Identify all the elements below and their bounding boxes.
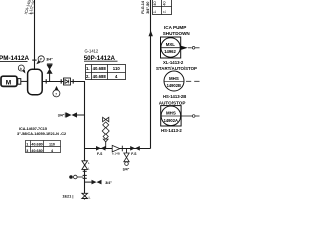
- svg-text:14902B: 14902B: [167, 83, 181, 88]
- svg-text:40: 40: [152, 1, 157, 6]
- svg-text:SHUTDOWN: SHUTDOWN: [163, 31, 191, 36]
- svg-text:1.: 1.: [152, 10, 157, 13]
- svg-text:b.14B: b.14B: [112, 152, 120, 156]
- svg-text:MXL: MXL: [166, 42, 176, 47]
- svg-text:HS-1413-2: HS-1413-2: [161, 128, 182, 133]
- svg-text:110: 110: [113, 66, 121, 71]
- svg-text:14962: 14962: [164, 49, 176, 54]
- svg-text:3/4": 3/4": [105, 181, 112, 185]
- svg-text:40.680: 40.680: [31, 149, 42, 153]
- svg-text:2.: 2.: [162, 10, 167, 13]
- svg-text:G-1412: G-1412: [85, 49, 99, 54]
- svg-text:3/4": 3/4": [46, 57, 53, 61]
- svg-text:110: 110: [49, 142, 55, 146]
- svg-text:MHS: MHS: [169, 76, 179, 81]
- svg-text:L: L: [89, 195, 91, 199]
- svg-text:3/4"-50: 3/4"-50: [146, 2, 150, 14]
- svg-text:2.: 2.: [86, 74, 90, 79]
- svg-text:AUTO/STOP: AUTO/STOP: [159, 101, 186, 106]
- svg-text:F-S: F-S: [97, 152, 103, 156]
- svg-text:ICA-14607-7C15: ICA-14607-7C15: [19, 127, 47, 131]
- svg-text:M: M: [6, 80, 11, 87]
- svg-text:L: L: [88, 167, 90, 171]
- svg-text:ICA PUMP: ICA PUMP: [164, 25, 186, 30]
- svg-text:3/4": 3/4": [123, 167, 130, 171]
- svg-text:HS-1413-2B: HS-1413-2B: [163, 94, 186, 99]
- svg-text:4: 4: [115, 74, 118, 79]
- svg-text:F-S: F-S: [131, 152, 137, 156]
- svg-text:P: P: [40, 57, 43, 62]
- svg-text:40.688: 40.688: [93, 66, 107, 71]
- svg-text:1: 1: [26, 142, 28, 146]
- svg-text:START/AUTO/STOP: START/AUTO/STOP: [156, 66, 197, 71]
- svg-text:3: 3: [26, 149, 28, 153]
- svg-text:XL-1413-2: XL-1413-2: [163, 60, 184, 65]
- svg-text:FLG-14: FLG-14: [141, 0, 145, 14]
- svg-text:3/4": 3/4": [58, 113, 65, 117]
- svg-text:3"-58ICA-14059-1E21-N -C2: 3"-58ICA-14059-1E21-N -C2: [17, 132, 66, 136]
- svg-text:L: L: [88, 161, 90, 165]
- svg-text:MHS: MHS: [166, 111, 176, 116]
- svg-text:40.688: 40.688: [93, 74, 107, 79]
- svg-text:14902A: 14902A: [164, 118, 178, 123]
- svg-text:1.: 1.: [86, 66, 90, 71]
- svg-text:40: 40: [162, 1, 167, 6]
- svg-text:40.680: 40.680: [31, 142, 42, 146]
- svg-text:1E21 |: 1E21 |: [62, 194, 73, 198]
